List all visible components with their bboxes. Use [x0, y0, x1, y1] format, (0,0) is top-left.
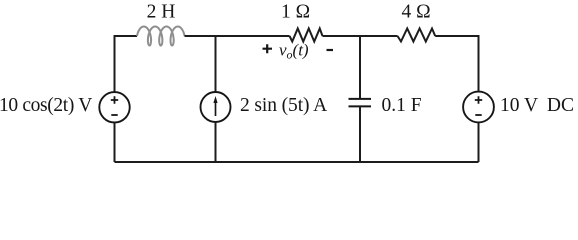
capacitor C1 top plate [349, 98, 372, 100]
svg-text:1 Ω: 1 Ω [281, 2, 310, 23]
svg-text:10 V DC: 10 V DC [500, 95, 574, 116]
wire: resistor 1ohm to resistor 4ohm, junction node C [323, 35, 398, 37]
svg-text:10 cos(2t) V: 10 cos(2t) V [0, 95, 92, 116]
V1 minus sign [111, 114, 117, 116]
svg-text:vo(t): vo(t) [279, 41, 309, 62]
wire bottom rail [115, 161, 479, 163]
wire: capacitor bottom plate to bottom rail [359, 106, 361, 162]
wire top-left: node A to inductor [115, 36, 138, 92]
svg-text:2 sin (5t) A: 2 sin (5t) A [240, 95, 327, 116]
V1 plus sign [111, 96, 118, 103]
wire: node B vertical to current source [215, 36, 217, 92]
polarity plus for vo(t) [263, 44, 273, 53]
wire: V2 bottom to bottom rail [478, 122, 480, 162]
resistor R2 4 ohm [398, 29, 436, 42]
resistor R1 1 ohm [290, 29, 323, 42]
svg-text:4 Ω: 4 Ω [401, 2, 430, 23]
inductor L1 2 H [137, 27, 185, 46]
wire: inductor to resistor 1ohm, junction node B [185, 35, 290, 37]
I1 arrow [215, 100, 217, 116]
wire: I1 bottom to bottom rail [215, 122, 217, 162]
wire: V1 bottom to bottom rail [114, 123, 116, 163]
capacitor C1 bottom plate [349, 105, 372, 107]
voltage source V2 10V DC circle [463, 92, 494, 123]
wire: resistor 4ohm to node D top-right corner [435, 36, 478, 92]
voltage source V1 10cos(2t) circle [99, 92, 129, 122]
svg-text:0.1 F: 0.1 F [382, 95, 422, 116]
V2 minus sign [475, 114, 481, 116]
V2 plus sign [475, 96, 482, 103]
polarity minus for vo(t) [327, 49, 334, 51]
wire: node C vertical to capacitor top plate [359, 36, 361, 99]
svg-text:2 H: 2 H [147, 2, 176, 23]
current source I1 circle [201, 92, 231, 122]
